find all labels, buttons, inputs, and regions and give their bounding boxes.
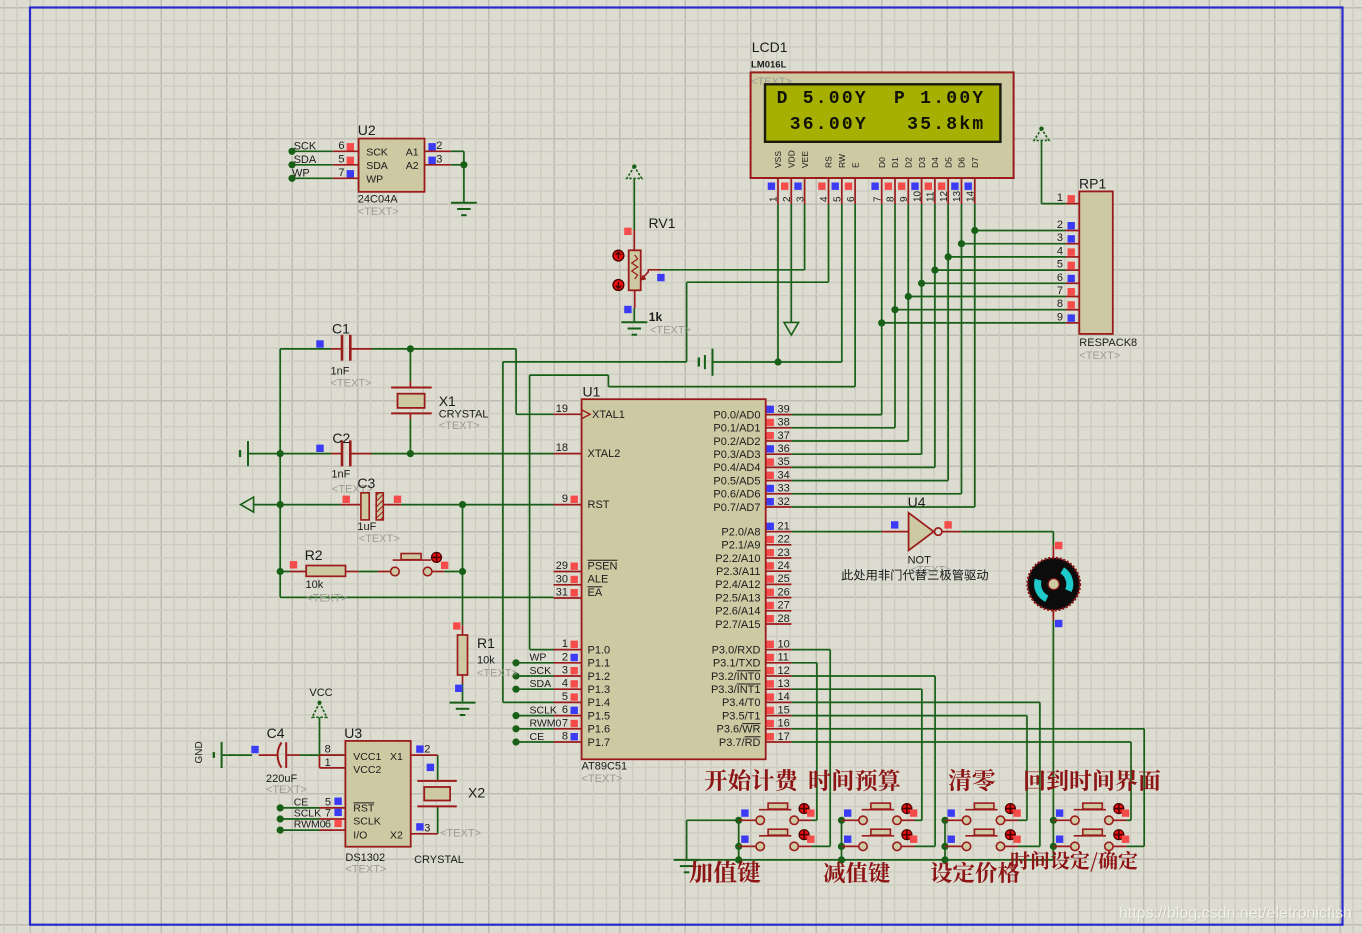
RP1 pin 8 [1066,309,1080,311]
U2 pin 3 A2 [425,164,451,166]
svg-text:C4: C4 [267,725,285,741]
staircase junction dots (LCD data to RP1) [971,227,978,234]
U1 pin 39 P0.0/AD0 [766,414,792,416]
svg-text:9: 9 [1057,311,1063,323]
svg-text:1uF: 1uF [357,521,376,533]
svg-text:5: 5 [562,691,568,703]
U1 pin 36 P0.3/AD3 [766,453,792,455]
svg-text:SCK: SCK [294,141,317,153]
push button 时间预算 [844,809,851,816]
btn-label 设定价格 [931,862,1020,883]
svg-text:RST: RST [353,803,375,815]
svg-text:A1: A1 [406,146,419,158]
svg-text:SCLK: SCLK [530,704,557,716]
wire: U1 pin to button group 3 row1 [791,715,1027,717]
svg-text:7: 7 [1057,285,1063,297]
wire: LCD VSS (pin1) vertical down to battery node [777,204,779,362]
svg-text:C2: C2 [332,430,350,446]
wire: LCD VEE (pin3) vertical + horizontal to RV1 wiper [804,204,806,270]
wire: U1 pin to button group 1 row1 [791,662,817,664]
svg-text:<TEXT>: <TEXT> [266,784,307,796]
svg-text:<TEXT>: <TEXT> [359,533,400,545]
svg-text:8: 8 [562,731,568,743]
wire: C1/C2 left vertical down to EA row [279,349,281,598]
svg-text:P3.5/T1: P3.5/T1 [722,710,761,722]
U1 pin 5 P1.4 [554,701,582,703]
IC U1 AT89C51 microcontroller [582,399,766,759]
wire: button group 1 left vertical [738,820,740,860]
crystal X2 [417,780,456,782]
svg-text:3: 3 [1057,232,1063,244]
svg-text:<TEXT>: <TEXT> [1079,350,1120,362]
svg-text:26: 26 [778,586,790,598]
svg-text:22: 22 [778,534,790,546]
svg-text:P3.3/INT1: P3.3/INT1 [711,684,761,696]
ground at button bus [674,859,700,861]
U1 pin 17 P3.7/RD [766,741,792,743]
svg-text:28: 28 [778,613,790,625]
U1 ALE pin 30 [554,584,582,586]
RP1 RESPACK8 resistor pack [1079,191,1113,334]
svg-text:LCD1: LCD1 [752,39,788,55]
wire: X1 crystal taps into C1 and C2 rows [409,349,411,381]
svg-text:7: 7 [338,167,344,179]
svg-text:R1: R1 [477,635,495,651]
svg-text:ALE: ALE [588,574,609,586]
net terminal dots U2 left [288,148,295,155]
wire: NOT gate output to motor, motor down to button column [961,531,1054,533]
svg-text:8: 8 [1057,298,1063,310]
svg-text:D0: D0 [877,157,887,168]
svg-text:D1: D1 [890,157,900,168]
RP1 pin 5 [1066,269,1080,271]
U1 pin 2 P1.1 [554,662,582,664]
svg-text:3: 3 [424,822,430,834]
capacitor C1 1nF [331,348,342,350]
wire: U1 pin to button group 2 row1 [791,688,922,690]
svg-text:U3: U3 [344,725,362,741]
svg-text:1nF: 1nF [331,366,350,378]
LCD1 LM016L display module [751,72,1014,178]
svg-text:P2.3/A11: P2.3/A11 [716,566,760,578]
wire: U1 left net stubs WP SCK SDA SCLK RWM0 CE [516,662,554,664]
U1 pin 12 P3.2/INT0 [766,675,792,677]
svg-text:27: 27 [778,600,790,612]
U2 pin 7 WP [333,177,359,179]
U1 pin 8 P1.7 [554,741,582,743]
wire: U2 left stubs [292,150,333,152]
svg-text:P1.2: P1.2 [588,671,611,683]
svg-text:P2.4/A12: P2.4/A12 [715,579,760,591]
svg-text:RWM0: RWM0 [530,718,562,730]
svg-text:29: 29 [556,560,568,572]
svg-text:9: 9 [562,493,568,505]
svg-text:P3.7/RD: P3.7/RD [719,737,761,749]
wire: battery to LCD VSS node and to LCD RW (pin5) [713,361,842,363]
svg-text:R2: R2 [305,547,323,563]
U1 pin 37 P0.2/AD2 [766,440,792,442]
wire: U1 P2.0 (pin21) to NOT gate input [791,531,881,533]
svg-text:P2.2/A10: P2.2/A10 [715,553,760,565]
push button 回到时间界面 [1056,809,1063,816]
svg-text:SCK: SCK [530,665,552,677]
svg-text:19: 19 [556,403,568,415]
svg-text:SDA: SDA [294,154,317,166]
wire: U3 left net stubs CE SCLK RWM0 [280,807,319,809]
svg-text:P1.5: P1.5 [588,710,611,722]
svg-text:34: 34 [778,469,790,481]
svg-text:XTAL2: XTAL2 [588,448,621,460]
U1 EA pin 31 [554,597,582,599]
U1 pin 33 P0.6/AD6 [766,493,792,495]
svg-text:<TEXT>: <TEXT> [358,206,399,218]
svg-text:11: 11 [778,652,789,664]
svg-text:1nF: 1nF [331,469,350,481]
power-down arrow on LCD VDD line [784,322,799,335]
svg-text:P2.5/A13: P2.5/A13 [715,592,760,604]
svg-text:U1: U1 [583,384,601,400]
svg-text:X1: X1 [390,751,403,763]
U1 RST pin 9 [554,504,582,506]
svg-text:13: 13 [778,678,790,690]
svg-text:VEE: VEE [800,151,810,168]
svg-text:A2: A2 [406,160,419,172]
svg-text:D3: D3 [917,157,927,168]
ground below RV1 [621,321,647,323]
wire: button group 4 left vertical [1052,820,1054,860]
svg-text:U4: U4 [908,494,926,510]
U1 pin 38 P0.1/AD1 [766,427,792,429]
svg-text:32: 32 [778,496,790,508]
svg-text:6: 6 [846,196,857,202]
svg-text:U2: U2 [358,122,376,138]
svg-text:<TEXT>: <TEXT> [477,668,518,680]
U1 pin 16 P3.6/WR [766,728,792,730]
svg-text:SCK: SCK [366,146,388,158]
potentiometer RV1 1k [632,164,636,168]
wire: C3/RST row (y504.6) [254,504,341,506]
svg-text:P1.0: P1.0 [588,644,611,656]
svg-text:<TEXT>: <TEXT> [345,864,386,876]
svg-text:8: 8 [886,196,897,202]
svg-text:P0.7/AD7: P0.7/AD7 [713,502,760,514]
svg-text:CRYSTAL: CRYSTAL [439,409,489,421]
junction dot U2 A2 [460,161,467,168]
wire: U1 pin to button group 4 row1 [791,741,1131,743]
svg-text:1: 1 [769,196,780,202]
wire: R2 row (y571.5) [280,571,290,573]
ground below U2 [451,202,477,204]
svg-text:13: 13 [952,190,963,202]
svg-text:10k: 10k [477,655,495,667]
svg-text:16: 16 [778,718,790,730]
svg-text:10: 10 [778,638,790,650]
wire: button bus and left verticals [686,820,688,860]
svg-text:D 5.00Y P 1.00Y: D 5.00Y P 1.00Y [777,89,986,109]
wire: RP1 pins 2-9 horizontals to data verticals (staircase) [975,230,1066,232]
svg-text:RP1: RP1 [1079,176,1106,192]
RP1 pin 6 [1066,282,1080,284]
button group junction dots [735,817,742,824]
svg-text:P3.6/WR: P3.6/WR [716,724,760,736]
U1 pin 26 P2.5/A13 [766,597,792,599]
svg-text:4: 4 [562,678,568,690]
svg-text:P2.6/A14: P2.6/A14 [715,606,760,618]
svg-text:DS1302: DS1302 [345,852,385,864]
svg-text:RWM0: RWM0 [294,819,326,831]
svg-text:P1.4: P1.4 [588,697,611,709]
svg-text:WP: WP [292,168,310,180]
U1 PSEN pin 29 [554,571,582,573]
svg-text:1: 1 [562,638,568,650]
btn-label 开始计费 [705,769,797,791]
svg-text:D2: D2 [904,157,914,168]
motor (driven by U4) [1052,546,1054,559]
svg-text:21: 21 [778,520,790,532]
motor commutator segments [1062,570,1070,590]
svg-text:<TEXT>: <TEXT> [306,593,347,605]
wire: VCC vertical to U3 VCC1 and C4 row [319,717,321,755]
U1 pin 22 P2.1/A9 [766,544,792,546]
svg-text:RV1: RV1 [649,215,676,231]
btn-label 减值键 [824,862,891,883]
svg-text:7: 7 [562,717,568,729]
svg-text:10k: 10k [306,579,324,591]
crystal X1 [409,381,411,388]
junction dots [774,358,781,365]
svg-text:P1.6: P1.6 [588,724,611,736]
RP1 pin 4 [1066,256,1080,258]
RV1 up/down actuators [613,250,624,261]
push button 设定价格 [948,836,955,843]
svg-text:X2: X2 [390,830,403,842]
U3 pin 8 VCC1 [320,754,346,756]
net terminal dots U1 left [512,659,519,666]
svg-text:15: 15 [778,704,790,716]
svg-text:1: 1 [1057,192,1063,204]
U1 pin 1 P1.0 [554,649,582,651]
svg-text:D4: D4 [930,157,940,168]
IC U3 DS1302 RTC [345,741,410,847]
U1 pin 32 P0.7/AD7 [766,506,792,508]
svg-text:33: 33 [778,483,790,495]
svg-text:P1.3: P1.3 [588,684,611,696]
svg-text:CRYSTAL: CRYSTAL [414,854,464,866]
reset switch actuator [432,552,442,562]
svg-text:2: 2 [424,744,430,756]
svg-text:E: E [850,162,860,168]
svg-text:4: 4 [819,196,830,202]
reset push switch [359,571,378,573]
wire: button group 2 left vertical [841,820,843,860]
U1 pin 34 P0.5/AD5 [766,480,792,482]
U1 pin 13 P3.3/INT1 [766,688,792,690]
capacitor C3 1uF (polarised) [241,497,254,512]
ground below R1 [450,702,476,704]
svg-text:4: 4 [1057,245,1063,257]
resistor R1 10k [462,625,464,635]
svg-text:P3.1/TXD: P3.1/TXD [713,658,761,670]
U1 pin 21 P2.0/A8 [766,531,792,533]
U1 pin 24 P2.3/A11 [766,570,792,572]
svg-text:CE: CE [530,731,545,743]
U3 pin 6 I/O [320,829,346,831]
U3 pin 3 X2 [411,833,438,835]
gate U4 NOT [882,531,909,533]
wire: U3 X1/X2 to crystal X2 [437,755,439,780]
svg-text:D7: D7 [970,157,980,168]
push button 清零 [948,809,955,816]
RP1 pin 1 [1066,203,1080,205]
svg-text:VDD: VDD [787,150,797,168]
U1 pin 6 P1.5 [554,715,582,717]
svg-text:P0.4/AD4: P0.4/AD4 [713,462,760,474]
svg-text:2: 2 [562,651,568,663]
wire: button group 3 left vertical [944,820,946,860]
svg-text:AT89C51: AT89C51 [582,761,628,773]
U1 XTAL1 pin 19 [554,413,582,415]
svg-text:P2.0/A8: P2.0/A8 [721,526,760,538]
U1 pin 3 P1.2 [554,675,582,677]
push button 加值键 [741,836,748,843]
svg-text:RST: RST [588,499,610,511]
svg-text:5: 5 [833,196,844,202]
svg-text:38: 38 [778,417,790,429]
svg-text:P1.1: P1.1 [588,658,611,670]
svg-text:P0.5/AD5: P0.5/AD5 [713,475,760,487]
btn-label 时间设定/确定 [1011,851,1137,872]
U1 XTAL2 pin 18 [554,453,582,455]
svg-text:P1.7: P1.7 [588,737,611,749]
RV1 wiper arm [643,270,648,278]
svg-text:VCC2: VCC2 [353,764,381,776]
svg-text:P2.7/A15: P2.7/A15 [715,619,760,631]
svg-text:<TEXT>: <TEXT> [439,420,480,432]
wire: U2 right pins to ground [451,150,464,152]
U1 pin 23 P2.2/A10 [766,557,792,559]
svg-text:14: 14 [778,691,790,703]
svg-text:3: 3 [436,153,442,165]
wire: reset vertical RST-R2-R1 [462,505,464,626]
U2 pin 5 SDA [333,164,359,166]
wire: LCD RS (pin4) vertical, left to x686.6, down, left along y361.9 to x502.9, down to P1.4 [828,204,830,282]
note text 此处用非门代替三极管驱动 [842,569,988,580]
LCD pins 1-14 stubs, squares, numbers [777,178,779,204]
U3 pin 5 RST [320,807,346,809]
U1 pin 7 P1.6 [554,728,582,730]
svg-text:1: 1 [325,757,331,769]
wire: U1 pin to button group 2 row2 [791,675,935,677]
U1 pin 10 P3.0/RXD [766,649,792,651]
svg-text:RESPACK8: RESPACK8 [1079,337,1137,349]
svg-text:<TEXT>: <TEXT> [440,828,481,840]
svg-text:X2: X2 [468,785,485,801]
svg-text:24: 24 [778,560,790,572]
svg-text:12: 12 [778,665,790,677]
svg-text:<TEXT>: <TEXT> [582,773,623,785]
svg-text:RS: RS [824,156,834,168]
U1 pin 15 P3.5/T1 [766,715,792,717]
RP1 pin 2 [1066,230,1080,232]
wire: U1 pin to button group 4 row2 [791,728,1144,730]
svg-text:SDA: SDA [530,678,552,690]
wire: U1 pin to button group 1 row2 [791,649,830,651]
svg-text:10: 10 [912,190,923,202]
svg-text:WP: WP [530,652,547,664]
svg-text:I/O: I/O [353,830,367,842]
svg-text:9: 9 [899,196,910,202]
svg-text:25: 25 [778,573,790,585]
U1 pin 27 P2.6/A14 [766,610,792,612]
svg-text:17: 17 [778,731,790,743]
btn-label 加值键 [689,861,760,884]
svg-text:<TEXT>: <TEXT> [650,325,691,337]
svg-text:SDA: SDA [366,160,388,172]
svg-text:8: 8 [325,744,331,756]
wire: LCD data D0-D7 verticals down to U1 P0 rows [881,204,883,415]
svg-text:P0.6/AD6: P0.6/AD6 [713,489,760,501]
svg-text:P0.1/AD1: P0.1/AD1 [713,423,760,435]
svg-text:1k: 1k [649,310,663,324]
U1 pin 4 P1.3 [554,688,582,690]
resistor R2 10k [290,571,306,573]
RP1 pin 7 [1066,296,1080,298]
wire: R1 bottom to ground [462,684,464,702]
svg-text:2: 2 [436,140,442,152]
svg-text:30: 30 [556,573,568,585]
U1 pin 35 P0.4/AD4 [766,466,792,468]
push button 减值键 [844,836,851,843]
btn-label 清零 [949,769,995,791]
wire: U1 pin to button group 3 row2 [791,701,1040,703]
svg-text:12: 12 [939,190,950,202]
svg-text:P0.2/AD2: P0.2/AD2 [713,436,760,448]
svg-text:18: 18 [556,442,568,454]
svg-text:C1: C1 [332,321,350,337]
svg-text:6: 6 [338,140,344,152]
wire: RV1 bottom to ground [633,308,635,322]
push button 开始计费 [741,809,748,816]
svg-text:P0.0/AD0: P0.0/AD0 [713,409,760,421]
svg-text:31: 31 [556,587,568,599]
svg-text:VSS: VSS [773,151,783,168]
svg-text:39: 39 [778,403,790,415]
svg-text:11: 11 [926,191,937,202]
svg-text:RW: RW [837,154,847,168]
svg-text:P2.1/A9: P2.1/A9 [721,540,760,552]
svg-text:6: 6 [1057,272,1063,284]
svg-text:23: 23 [778,547,790,559]
svg-text:36: 36 [778,443,790,455]
U3 pin 2 X1 [411,754,438,756]
svg-text:XTAL1: XTAL1 [592,409,625,421]
U3 pin 7 SCLK [320,818,346,820]
wire: LCD E (pin6) vertical, jog, left, down to P1.0 [854,204,856,387]
svg-text:3: 3 [562,665,568,677]
svg-text:3: 3 [795,196,806,202]
U3 pin 1 VCC2 [320,767,346,769]
svg-text:P3.0/RXD: P3.0/RXD [712,644,761,656]
U2 pin 2 A1 [425,150,451,152]
svg-text:D6: D6 [957,157,967,168]
svg-text:WP: WP [366,173,383,185]
RP1 pin 3 [1066,243,1080,245]
svg-text:5: 5 [338,153,344,165]
LCD screen [765,84,1000,142]
svg-text:37: 37 [778,430,790,442]
svg-text:6: 6 [325,819,331,831]
svg-text:C3: C3 [357,475,375,491]
